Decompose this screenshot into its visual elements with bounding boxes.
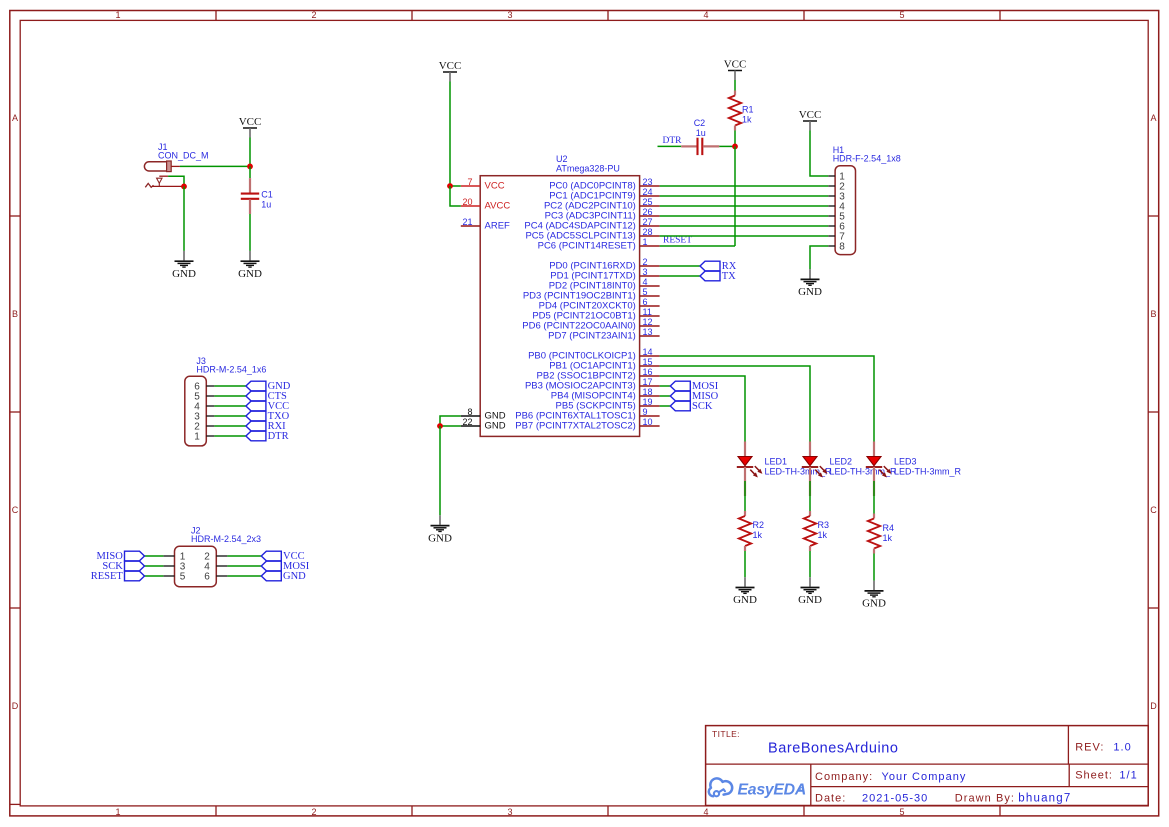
wire xyxy=(145,555,164,557)
svg-text:5: 5 xyxy=(180,572,186,583)
U2 pin 7 VCC xyxy=(461,177,505,192)
net flag SCK xyxy=(102,561,144,572)
ground (H1) xyxy=(798,269,822,298)
U2 pin 4 PD2 xyxy=(549,277,660,292)
svg-text:D: D xyxy=(1150,701,1157,711)
U2 pin 5 PD3 xyxy=(523,287,660,302)
svg-text:TITLE:: TITLE: xyxy=(712,729,740,739)
ground (R2) xyxy=(733,577,757,606)
wire PD0 to RX xyxy=(660,265,700,267)
svg-text:1k: 1k xyxy=(883,533,893,543)
svg-text:9: 9 xyxy=(643,407,648,417)
J2 pin 5 xyxy=(163,572,185,583)
wire VCC down to U2 xyxy=(449,82,451,187)
connector J2 HDR-M-2.54_2x3 xyxy=(175,526,262,587)
wire RESET to U2 pin1 xyxy=(660,245,735,247)
node J1 sleeve junction xyxy=(181,184,187,190)
svg-text:C2: C2 xyxy=(694,118,706,128)
wire H1 pin8 to ground xyxy=(810,246,828,269)
net flag GND xyxy=(261,571,306,582)
U2 pin 8 GND xyxy=(461,407,506,422)
svg-text:TX: TX xyxy=(722,271,736,282)
svg-text:GND: GND xyxy=(283,571,306,582)
svg-text:3: 3 xyxy=(643,267,648,277)
svg-text:ATmega328-PU: ATmega328-PU xyxy=(556,163,620,173)
svg-text:GND: GND xyxy=(238,268,262,280)
node GND junction xyxy=(437,423,443,429)
H1 pin 1 xyxy=(828,172,845,183)
U2 pin 9 PB6 xyxy=(515,407,659,422)
svg-text:2021-05-30: 2021-05-30 xyxy=(862,792,928,804)
svg-text:17: 17 xyxy=(643,377,653,387)
wire xyxy=(214,405,246,407)
svg-text:1u: 1u xyxy=(696,128,706,138)
H1 pin 4 xyxy=(828,202,845,213)
J2 pin 1 xyxy=(163,552,185,563)
connector J1 CON_DC_M xyxy=(144,142,208,187)
wire J1 pin1 to node xyxy=(180,165,250,167)
svg-text:3: 3 xyxy=(507,10,512,20)
U2 pin 22 GND xyxy=(461,417,506,432)
frame column ticks top xyxy=(216,11,1000,21)
svg-text:24: 24 xyxy=(643,187,653,197)
wire DTR to C2 xyxy=(658,145,682,147)
frame column numbers top xyxy=(115,10,904,20)
wire GND down xyxy=(439,426,441,515)
svg-text:LED1: LED1 xyxy=(765,457,788,467)
svg-text:2: 2 xyxy=(311,10,316,20)
U2 pin 10 PB7 xyxy=(515,417,659,432)
resistor R4 xyxy=(868,514,880,554)
svg-text:VCC: VCC xyxy=(485,180,505,191)
U2 pin 23 PC0 xyxy=(549,177,659,192)
wire xyxy=(660,405,671,407)
svg-text:3: 3 xyxy=(507,807,512,817)
net flag VCC xyxy=(261,551,304,562)
U2 pin 13 PD7 xyxy=(548,327,659,342)
U2 pin 24 PC1 xyxy=(549,187,659,202)
wire VCC to H1 pin1 xyxy=(810,131,828,177)
wire xyxy=(809,481,811,511)
LED LED3 xyxy=(866,442,892,497)
U2 pin 17 PB3 xyxy=(525,377,660,392)
svg-text:VCC: VCC xyxy=(724,59,747,71)
connector H1 HDR-F-2.54_1x8 xyxy=(833,145,901,255)
net flag TXO xyxy=(246,411,290,422)
wire PC3 to H1 pin5 xyxy=(660,215,829,217)
J3 pin 1 xyxy=(194,432,214,443)
svg-text:20: 20 xyxy=(462,197,472,207)
svg-text:5: 5 xyxy=(899,10,904,20)
power flag VCC (R1) xyxy=(724,59,747,81)
frame column numbers bottom xyxy=(115,807,904,817)
wire to AVCC pin xyxy=(450,186,461,206)
power flag VCC (U2) xyxy=(439,60,462,82)
U2 pin 27 PC4 xyxy=(524,217,659,232)
frame row ticks left xyxy=(10,216,20,804)
U2 pin 3 PD1 xyxy=(550,267,659,282)
svg-text:DTR: DTR xyxy=(268,431,289,442)
svg-text:1k: 1k xyxy=(818,530,828,540)
net flag MOSI xyxy=(261,561,309,572)
title block xyxy=(706,726,1149,806)
svg-text:18: 18 xyxy=(643,387,653,397)
wire J1 pin3 elbow to sleeve node xyxy=(168,176,184,186)
svg-text:12: 12 xyxy=(643,317,653,327)
wire xyxy=(145,575,164,577)
net flag MISO xyxy=(670,391,718,402)
wire R1 to node xyxy=(734,131,736,147)
svg-text:8: 8 xyxy=(467,407,472,417)
J3 pin 6 xyxy=(194,382,214,393)
svg-text:1: 1 xyxy=(115,10,120,20)
svg-text:GND: GND xyxy=(733,594,757,606)
wire xyxy=(744,551,746,577)
svg-text:Sheet:: Sheet: xyxy=(1075,770,1113,782)
svg-text:25: 25 xyxy=(643,197,653,207)
svg-text:6: 6 xyxy=(204,572,210,583)
wire PB to LED3 xyxy=(660,356,874,442)
wire PB to LED2 xyxy=(660,366,810,442)
J2 pin 2 xyxy=(204,552,227,563)
power flag VCC (H1) xyxy=(799,109,822,131)
svg-text:C1: C1 xyxy=(261,190,273,200)
node VCC junction xyxy=(447,183,453,189)
svg-text:VCC: VCC xyxy=(799,109,822,121)
svg-text:GND: GND xyxy=(172,268,196,280)
svg-text:GND: GND xyxy=(798,286,822,298)
wire xyxy=(214,425,246,427)
wire xyxy=(873,554,875,581)
svg-text:Drawn By:: Drawn By: xyxy=(955,792,1015,804)
wire PD1 to TX xyxy=(660,275,700,277)
wire VCC to C1/J1 node xyxy=(249,138,251,167)
U2 pin 14 PB0 xyxy=(528,347,660,362)
svg-text:SCK: SCK xyxy=(692,401,713,412)
svg-text:BareBonesArduino: BareBonesArduino xyxy=(768,740,899,756)
svg-text:PB7 (PCINT7XTAL2TOSC2): PB7 (PCINT7XTAL2TOSC2) xyxy=(515,420,636,431)
svg-text:1: 1 xyxy=(643,237,648,247)
wire PC5 to H1 pin7 xyxy=(660,235,829,237)
svg-text:1: 1 xyxy=(115,807,120,817)
wire xyxy=(744,481,746,511)
U2 pin 19 PB5 xyxy=(556,397,660,412)
svg-text:4: 4 xyxy=(643,277,648,287)
wire PB to LED1 xyxy=(660,376,745,442)
svg-text:1k: 1k xyxy=(742,115,752,125)
svg-text:RESET: RESET xyxy=(663,236,692,246)
svg-text:LED-TH-3mm_R: LED-TH-3mm_R xyxy=(894,467,962,477)
net flag VCC xyxy=(246,401,289,412)
svg-text:bhuang7: bhuang7 xyxy=(1018,792,1071,804)
net flag RXI xyxy=(246,421,286,432)
wire PC2 to H1 pin4 xyxy=(660,205,829,207)
svg-text:VCC: VCC xyxy=(439,60,462,72)
svg-text:7: 7 xyxy=(467,177,472,187)
svg-text:4: 4 xyxy=(703,10,708,20)
svg-text:21: 21 xyxy=(462,217,472,227)
wire xyxy=(660,395,671,397)
J3 pin 3 xyxy=(194,412,214,423)
svg-text:AVCC: AVCC xyxy=(485,200,511,211)
svg-text:22: 22 xyxy=(462,417,472,427)
ground (R4) xyxy=(862,581,886,610)
wire GND pin8 xyxy=(440,416,461,426)
svg-text:B: B xyxy=(1150,309,1156,319)
net flag RESET xyxy=(91,571,145,582)
wire xyxy=(227,565,261,567)
wire C1 to ground xyxy=(249,214,251,251)
J3 pin 2 xyxy=(194,422,214,433)
LED LED2 xyxy=(802,442,828,497)
svg-text:28: 28 xyxy=(643,227,653,237)
capacitor C2 xyxy=(681,118,719,155)
power flag VCC (top-left) xyxy=(239,116,262,138)
wire xyxy=(809,551,811,577)
svg-text:2: 2 xyxy=(643,257,648,267)
wire xyxy=(873,481,875,514)
svg-text:Date:: Date: xyxy=(815,792,846,804)
J2 pin 4 xyxy=(204,562,227,573)
svg-text:EasyEDA: EasyEDA xyxy=(738,782,807,799)
ground (U2) xyxy=(428,515,452,544)
node J1/C1/VCC junction xyxy=(247,164,253,170)
wire xyxy=(145,565,164,567)
svg-text:C: C xyxy=(1150,505,1157,515)
IC U2 ATmega328-PU xyxy=(480,154,639,436)
net flag CTS xyxy=(246,391,287,402)
svg-text:1u: 1u xyxy=(261,200,271,210)
svg-text:14: 14 xyxy=(643,347,653,357)
svg-text:LED2: LED2 xyxy=(830,457,853,467)
J2 pin 6 xyxy=(204,572,227,583)
frame row letters left xyxy=(12,113,19,711)
wire xyxy=(227,555,261,557)
ground (R3) xyxy=(798,577,822,606)
svg-text:23: 23 xyxy=(643,177,653,187)
wire to VCC pin xyxy=(450,185,461,187)
wire GND pin22 xyxy=(440,425,461,427)
wire xyxy=(214,395,246,397)
svg-text:R2: R2 xyxy=(753,520,765,530)
svg-text:D: D xyxy=(12,701,19,711)
svg-text:HDR-F-2.54_1x8: HDR-F-2.54_1x8 xyxy=(833,154,901,164)
LED LED1 xyxy=(737,442,763,497)
svg-text:R4: R4 xyxy=(883,523,895,533)
resistor R1 xyxy=(729,91,741,131)
net flag SCK xyxy=(670,401,713,412)
svg-text:15: 15 xyxy=(643,357,653,367)
svg-text:HDR-M-2.54_1x6: HDR-M-2.54_1x6 xyxy=(196,365,266,375)
U2 pin 11 PD5 xyxy=(532,307,659,322)
H1 pin 7 xyxy=(828,232,845,243)
wire C2 to node xyxy=(719,145,735,147)
svg-text:5: 5 xyxy=(643,287,648,297)
U2 pin 20 AVCC xyxy=(461,197,511,212)
H1 pin 2 xyxy=(828,182,845,193)
svg-text:R3: R3 xyxy=(818,520,830,530)
U2 pin 21 AREF xyxy=(461,217,510,232)
svg-text:13: 13 xyxy=(643,327,653,337)
U2 pin 2 PD0 xyxy=(549,257,659,272)
svg-text:6: 6 xyxy=(643,297,648,307)
svg-text:GND: GND xyxy=(485,420,506,431)
U2 pin 16 PB2 xyxy=(537,367,660,382)
J2 pin 3 xyxy=(163,562,185,573)
svg-text:AREF: AREF xyxy=(485,220,511,231)
svg-text:B: B xyxy=(12,309,18,319)
connector J3 HDR-M-2.54_1x6 xyxy=(185,356,267,446)
U2 pin 15 PB1 xyxy=(549,357,659,372)
EasyEDA logo xyxy=(709,778,806,798)
H1 pin 8 xyxy=(828,242,845,253)
svg-text:A: A xyxy=(1150,113,1156,123)
svg-text:Your Company: Your Company xyxy=(882,771,967,783)
U2 pin 12 PD6 xyxy=(522,317,659,332)
svg-text:1: 1 xyxy=(194,432,200,443)
H1 pin 6 xyxy=(828,222,845,233)
svg-text:HDR-M-2.54_2x3: HDR-M-2.54_2x3 xyxy=(191,534,261,544)
wire RESET vertical xyxy=(734,146,736,246)
net flag MISO xyxy=(97,551,145,562)
U2 pin 1 PC6 xyxy=(538,237,660,252)
svg-text:PC6 (PCINT14RESET): PC6 (PCINT14RESET) xyxy=(538,240,636,251)
net flag DTR xyxy=(246,431,289,442)
svg-text:REV:: REV: xyxy=(1075,741,1104,753)
svg-text:1k: 1k xyxy=(753,530,763,540)
wire xyxy=(660,385,671,387)
resistor R3 xyxy=(804,511,816,551)
svg-text:26: 26 xyxy=(643,207,653,217)
U2 pin 28 PC5 xyxy=(525,227,659,242)
H1 pin 5 xyxy=(828,212,845,223)
svg-text:10: 10 xyxy=(643,417,653,427)
net flag MOSI xyxy=(670,381,718,392)
frame row ticks right xyxy=(1148,216,1159,608)
frame row letters right xyxy=(1150,113,1157,711)
ground (J1) xyxy=(172,251,196,280)
svg-text:1.0: 1.0 xyxy=(1113,741,1131,753)
wire PC4 to H1 pin6 xyxy=(660,225,829,227)
U2 pin 6 PD4 xyxy=(539,297,660,312)
svg-text:2: 2 xyxy=(311,807,316,817)
wire PC1 to H1 pin3 xyxy=(660,195,829,197)
svg-text:19: 19 xyxy=(643,397,653,407)
net flag RX xyxy=(700,261,737,272)
svg-text:16: 16 xyxy=(643,367,653,377)
svg-text:27: 27 xyxy=(643,217,653,227)
svg-text:PD7 (PCINT23AIN1): PD7 (PCINT23AIN1) xyxy=(548,330,636,341)
wire xyxy=(227,575,261,577)
svg-text:A: A xyxy=(12,113,18,123)
wire xyxy=(214,415,246,417)
wire J1 sleeve to ground xyxy=(183,186,185,251)
resistor R2 xyxy=(739,511,751,551)
svg-text:LED3: LED3 xyxy=(894,457,917,467)
svg-text:4: 4 xyxy=(703,807,708,817)
wire xyxy=(214,385,246,387)
svg-text:RESET: RESET xyxy=(91,571,124,582)
H1 pin 3 xyxy=(828,192,845,203)
node R1/C2/RESET junction xyxy=(732,144,738,150)
capacitor C1 xyxy=(241,166,273,214)
svg-text:8: 8 xyxy=(839,242,845,253)
svg-text:GND: GND xyxy=(428,532,452,544)
svg-text:CON_DC_M: CON_DC_M xyxy=(158,151,209,161)
net flag GND xyxy=(246,381,291,392)
U2 pin 26 PC3 xyxy=(545,207,660,222)
U2 pin 18 PB4 xyxy=(551,387,660,402)
svg-text:R1: R1 xyxy=(742,105,754,115)
svg-text:GND: GND xyxy=(798,594,822,606)
svg-text:1/1: 1/1 xyxy=(1119,770,1137,782)
U2 pin 25 PC2 xyxy=(544,197,660,212)
svg-text:Company:: Company: xyxy=(815,771,873,783)
net flag TX xyxy=(700,271,736,282)
wire PC0 to H1 pin2 xyxy=(660,185,829,187)
J3 pin 5 xyxy=(194,392,214,403)
wire VCC to R1 xyxy=(734,80,736,91)
svg-text:DTR: DTR xyxy=(663,136,683,146)
ground (C1) xyxy=(238,251,262,280)
svg-text:11: 11 xyxy=(643,307,652,317)
svg-text:VCC: VCC xyxy=(239,116,262,128)
svg-text:C: C xyxy=(12,505,19,515)
svg-text:5: 5 xyxy=(899,807,904,817)
wire xyxy=(214,435,246,437)
frame column ticks bottom xyxy=(216,806,1000,816)
svg-text:GND: GND xyxy=(862,598,886,610)
J3 pin 4 xyxy=(194,402,214,413)
